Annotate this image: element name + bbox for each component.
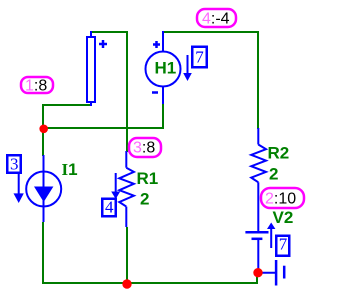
svg-text:R1: R1 [137, 169, 159, 188]
svg-text:4:-4: 4:-4 [202, 11, 230, 28]
svg-text:4: 4 [105, 198, 114, 217]
svg-text:2: 2 [140, 190, 149, 209]
svg-text:3:8: 3:8 [133, 140, 155, 157]
svg-text:7: 7 [195, 48, 204, 67]
svg-text:1:8: 1:8 [25, 78, 47, 95]
svg-text:I1: I1 [62, 160, 78, 179]
svg-text:2:10: 2:10 [265, 191, 296, 208]
svg-text:2: 2 [269, 165, 278, 184]
svg-text:R2: R2 [268, 144, 290, 163]
svg-text:7: 7 [279, 235, 288, 254]
svg-text:H1: H1 [155, 59, 177, 78]
svg-text:V2: V2 [273, 208, 294, 227]
svg-text:3: 3 [10, 155, 19, 174]
